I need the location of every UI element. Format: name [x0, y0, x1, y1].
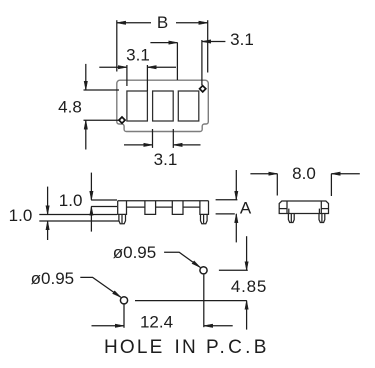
svg-text:3.1: 3.1	[126, 46, 150, 65]
svg-text:3.1: 3.1	[154, 150, 178, 169]
mounting hole diamond top-right	[200, 86, 206, 92]
window 2	[153, 91, 174, 121]
dimension 4.85 extension lines	[135, 270, 248, 300]
leader diameter 0.95 lower	[80, 277, 121, 297]
end view pin right	[319, 214, 325, 223]
end view pin left	[288, 214, 294, 223]
PCB hole circle left	[120, 297, 127, 304]
svg-text:ø0.95: ø0.95	[31, 269, 74, 288]
svg-text:3.1: 3.1	[230, 30, 254, 49]
dimension 8.0 extension lines	[277, 174, 331, 196]
dimension 4.8 arrows	[85, 64, 87, 150]
svg-text:4.85: 4.85	[231, 277, 267, 296]
svg-text:IN: IN	[175, 337, 198, 358]
svg-text:P.C.B: P.C.B	[206, 337, 270, 358]
svg-text:B: B	[157, 13, 168, 32]
dimension A arrows	[235, 170, 237, 242]
dimension 3.1 top-right leader arrow	[202, 41, 226, 43]
dimension B extension lines	[117, 20, 208, 72]
svg-text:A: A	[240, 199, 252, 218]
svg-text:1.0: 1.0	[59, 191, 83, 210]
svg-text:8.0: 8.0	[292, 164, 316, 183]
end view outline	[279, 201, 328, 214]
window 3	[178, 91, 199, 121]
top view body outline	[117, 80, 209, 131]
dimension 3.1 window1 arrows	[99, 66, 176, 68]
dimension 3.1 bottom extension lines	[153, 129, 174, 148]
side view lug 4	[200, 201, 209, 215]
end view left flange divider	[279, 201, 289, 214]
dimension B line with arrows	[117, 22, 208, 24]
dimension 3.1 window1 extension lines	[127, 65, 147, 91]
dimension 12.4 arrows	[92, 325, 233, 327]
dimension A extension lines	[216, 200, 238, 214]
dimension 3.1 leader to window3 left edge	[150, 43, 177, 80]
dimension 12.4 extension lines	[124, 275, 204, 328]
svg-text:1.0: 1.0	[9, 206, 33, 225]
window 1	[127, 91, 147, 121]
dimension 1.0 flange thickness arrows	[90, 173, 92, 232]
dimension 8.0 arrows	[250, 173, 359, 175]
leader diameter 0.95 upper	[164, 252, 200, 267]
end view right flange divider	[319, 201, 328, 214]
side view pin left	[119, 214, 126, 223]
svg-text:12.4: 12.4	[140, 312, 173, 331]
dimension 4.85 arrows	[246, 236, 248, 329]
dimension 3.1 top-right extension lines	[201, 40, 203, 85]
side view flange bar	[118, 201, 209, 207]
svg-text:4.8: 4.8	[58, 98, 82, 117]
side view lug 1	[118, 201, 127, 215]
side view pin right	[201, 214, 208, 223]
dimension 4.8 extension lines	[84, 90, 120, 120]
dimension 1.0 pin shoulder arrows	[47, 187, 49, 240]
svg-text:HOLE: HOLE	[104, 337, 165, 358]
mounting hole diamond bottom-left	[119, 117, 125, 123]
side view lug 2	[145, 201, 156, 215]
dimension 3.1 bottom arrows	[124, 144, 201, 146]
dimension 1.0 flange thickness extension lines	[91, 200, 117, 207]
dimension 1.0 pin shoulder extension lines	[39, 215, 119, 222]
side view lug 3	[172, 201, 183, 215]
svg-text:ø0.95: ø0.95	[113, 243, 156, 262]
PCB hole circle right	[200, 267, 207, 274]
